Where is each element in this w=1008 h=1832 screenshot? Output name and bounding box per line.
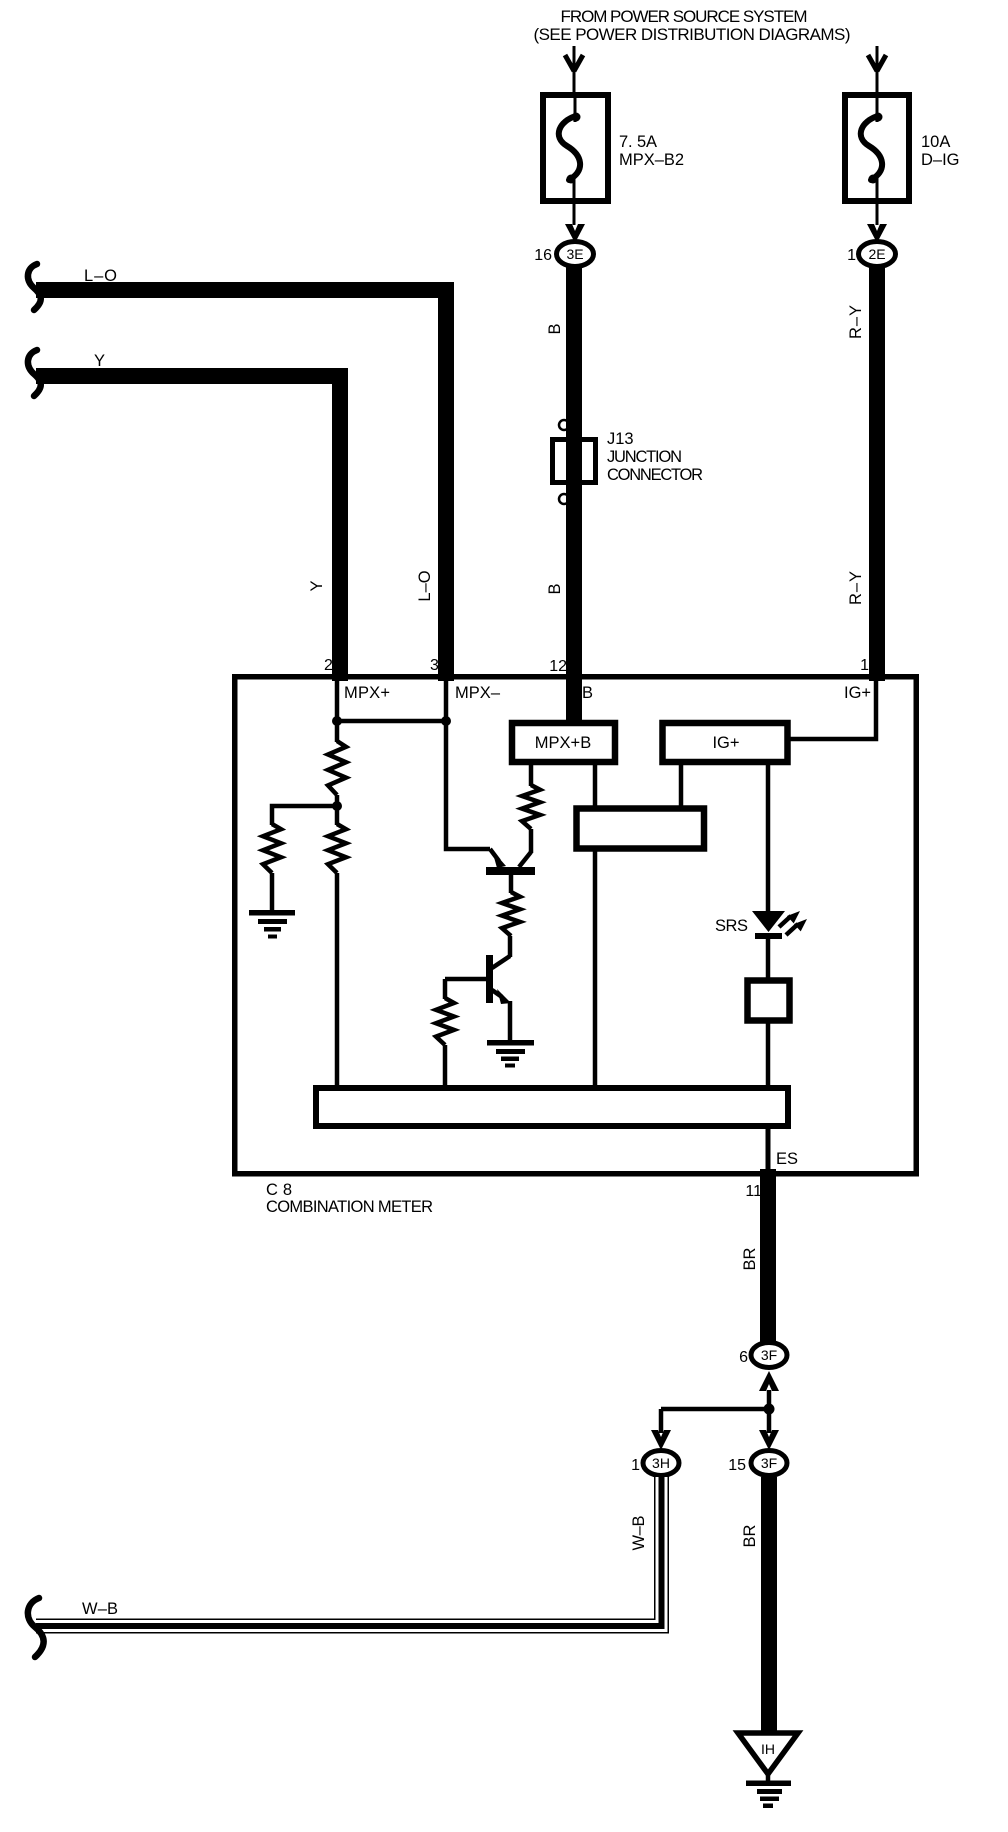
wire below 3F bbox=[767, 1390, 772, 1410]
connector 3H pin 1 bbox=[631, 1451, 679, 1476]
ground IH stem bbox=[766, 1771, 771, 1782]
svg-text:1: 1 bbox=[860, 657, 869, 674]
svg-text:3: 3 bbox=[430, 657, 439, 674]
svg-text:CONNECTOR: CONNECTOR bbox=[607, 466, 703, 484]
J13 terminal circle upper bbox=[559, 420, 569, 430]
transistor Q2 base wire bbox=[445, 977, 486, 982]
svg-text:1: 1 bbox=[847, 247, 856, 264]
bus bar block bbox=[316, 1088, 788, 1126]
svg-text:ES: ES bbox=[776, 1150, 798, 1168]
arrow into fuse F2 bbox=[868, 46, 886, 94]
junction connector J13 bbox=[553, 430, 704, 484]
svg-text:IG+: IG+ bbox=[844, 684, 871, 702]
svg-text:3E: 3E bbox=[566, 246, 583, 262]
svg-text:2E: 2E bbox=[868, 246, 885, 262]
arrow into fuse F1 bbox=[565, 46, 583, 94]
svg-text:C 8: C 8 bbox=[266, 1181, 292, 1199]
transistor Q2 base bar bbox=[486, 955, 493, 1003]
svg-text:L–O: L–O bbox=[84, 267, 117, 285]
wire module to bus bbox=[593, 850, 598, 1087]
wire branch left bbox=[272, 806, 337, 825]
block IG+ bbox=[663, 723, 788, 762]
wire Q2 base branch down bbox=[443, 979, 448, 999]
arrow up into 3F bbox=[759, 1371, 779, 1391]
svg-text:J13: J13 bbox=[607, 430, 634, 448]
resistor R2 bbox=[263, 824, 281, 873]
svg-text:MPX–: MPX– bbox=[455, 684, 501, 702]
node MPX- junction bbox=[441, 716, 451, 726]
block MPX+B bbox=[512, 723, 615, 762]
transistor Q1 base bar bbox=[486, 867, 535, 875]
svg-text:7. 5A: 7. 5A bbox=[619, 133, 657, 151]
ground G1 bbox=[249, 910, 295, 939]
wire W-B striped from 3H bbox=[36, 1476, 666, 1631]
svg-text:Y: Y bbox=[308, 580, 326, 591]
wire Y squiggle end bbox=[28, 350, 41, 396]
transistor Q2 collector diagonal bbox=[492, 956, 510, 968]
wire BR thick from 3F-15 bbox=[761, 1477, 777, 1734]
node split junction bbox=[764, 1404, 775, 1415]
svg-text:COMBINATION METER: COMBINATION METER bbox=[266, 1198, 433, 1216]
svg-text:10A: 10A bbox=[921, 133, 950, 151]
connector 3F pin 15 bbox=[728, 1451, 787, 1476]
resistor R3 bbox=[328, 824, 346, 873]
svg-text:Y: Y bbox=[94, 352, 105, 370]
wire MPX+B to module bbox=[593, 765, 598, 807]
wire ES internal bbox=[766, 1126, 771, 1174]
wire Y (thick) bbox=[36, 376, 340, 681]
transistor Q1 emitter with arrow bbox=[490, 849, 499, 861]
svg-text:1: 1 bbox=[631, 1457, 640, 1474]
arrow down into 3F-15 bbox=[759, 1430, 779, 1450]
wire R3 to bus bbox=[335, 873, 340, 1087]
wire Q2 emitter to ground bbox=[508, 1001, 513, 1042]
svg-text:2: 2 bbox=[324, 657, 333, 674]
svg-text:MPX+: MPX+ bbox=[344, 684, 390, 702]
wire R4 to MPX+B box bbox=[529, 763, 534, 786]
svg-text:FROM POWER SOURCE SYSTEM: FROM POWER SOURCE SYSTEM bbox=[561, 7, 808, 26]
svg-text:3F: 3F bbox=[761, 1455, 777, 1471]
wire IG+ to module bbox=[679, 765, 684, 807]
wire BR thick from pin 11 bbox=[760, 1169, 776, 1342]
svg-text:(SEE POWER DISTRIBUTION DIAGRA: (SEE POWER DISTRIBUTION DIAGRAMS) bbox=[534, 25, 851, 44]
J13 terminal circle lower bbox=[559, 494, 569, 504]
wire R1 to node bbox=[335, 795, 340, 806]
svg-text:12: 12 bbox=[549, 658, 567, 675]
wire B (thick) from 3E to combination meter bbox=[566, 266, 582, 720]
wire MPX+ to MPX- crossover bbox=[337, 719, 446, 724]
svg-text:D–IG: D–IG bbox=[921, 151, 960, 169]
wire R6 to bus bbox=[443, 1045, 448, 1087]
wire IG+ to LED bbox=[766, 765, 771, 913]
ground IH bars bbox=[746, 1781, 791, 1809]
svg-text:MPX+B: MPX+B bbox=[535, 734, 591, 752]
wire split horizontal bbox=[661, 1407, 769, 1412]
svg-text:SRS: SRS bbox=[715, 917, 748, 935]
svg-text:W–B: W–B bbox=[82, 1600, 118, 1618]
wire LED to resistor box bbox=[766, 937, 771, 979]
transistor Q1 collector bbox=[519, 852, 531, 867]
svg-text:16: 16 bbox=[534, 247, 552, 264]
wire Q1 base stem bbox=[509, 875, 514, 893]
svg-text:JUNCTION: JUNCTION bbox=[607, 448, 682, 466]
arrow down into 3H bbox=[651, 1430, 671, 1450]
module block (unlabeled) bbox=[577, 809, 705, 849]
fuse F2 10A D-IG bbox=[845, 95, 960, 225]
svg-text:MPX–B2: MPX–B2 bbox=[619, 151, 684, 169]
wire L-O (thick) bbox=[36, 290, 446, 681]
combination meter C8 box bbox=[235, 677, 917, 1174]
svg-text:IH: IH bbox=[761, 1741, 775, 1757]
wire R5 to Q2 collector bbox=[508, 936, 513, 957]
ground G2 bbox=[487, 1040, 534, 1068]
svg-text:3H: 3H bbox=[652, 1455, 670, 1471]
svg-text:L–O: L–O bbox=[416, 570, 434, 601]
svg-text:11: 11 bbox=[745, 1183, 762, 1200]
wire MPX- internal bbox=[446, 679, 490, 849]
LED SRS lamp bbox=[752, 911, 807, 939]
resistor R6 bbox=[436, 998, 454, 1045]
connector 2E pin 1 bbox=[847, 242, 895, 267]
wire IG+ pin to IG+ block bbox=[789, 679, 876, 739]
wire L-O squiggle end bbox=[28, 264, 41, 310]
svg-text:IG+: IG+ bbox=[712, 734, 739, 752]
svg-text:BR: BR bbox=[741, 1247, 759, 1270]
svg-text:B: B bbox=[582, 684, 593, 702]
wire right branch down bbox=[767, 1409, 772, 1433]
svg-text:3F: 3F bbox=[761, 1347, 777, 1363]
ground IH triangle bbox=[738, 1733, 798, 1774]
arrow into connector 2E bbox=[867, 224, 887, 243]
wire R-Y (thick) from 2E to combination meter bbox=[869, 266, 885, 681]
connector 3F pin 6 bbox=[739, 1343, 787, 1368]
svg-text:R–Y: R–Y bbox=[847, 305, 865, 339]
wire MPX+ internal bbox=[335, 679, 340, 742]
svg-text:W–B: W–B bbox=[630, 1516, 648, 1551]
resistor R4 bbox=[522, 785, 540, 829]
arrow into connector 3E bbox=[565, 224, 585, 243]
wire W-B squiggle end bbox=[28, 1598, 44, 1657]
wire R7 to bus bbox=[766, 1022, 771, 1087]
svg-text:B: B bbox=[546, 323, 564, 334]
transistor Q2 emitter with arrow bbox=[492, 990, 502, 997]
svg-text:BR: BR bbox=[741, 1524, 759, 1547]
wire node to R3 bbox=[335, 806, 340, 825]
wire left branch down bbox=[659, 1409, 664, 1433]
fuse F1 7.5A MPX-B2 bbox=[543, 95, 684, 225]
resistor R5 bbox=[502, 892, 520, 936]
connector 3E pin 16 bbox=[534, 242, 593, 267]
node divider junction bbox=[332, 801, 342, 811]
svg-text:R–Y: R–Y bbox=[847, 571, 865, 605]
svg-text:6: 6 bbox=[739, 1349, 748, 1366]
svg-text:B: B bbox=[546, 583, 564, 594]
svg-text:15: 15 bbox=[728, 1457, 746, 1474]
wire R2 to ground bbox=[270, 873, 275, 912]
node MPX+ junction bbox=[332, 716, 342, 726]
resistor R1 bbox=[328, 741, 346, 795]
resistor box R7 (unlabeled) bbox=[748, 981, 790, 1021]
